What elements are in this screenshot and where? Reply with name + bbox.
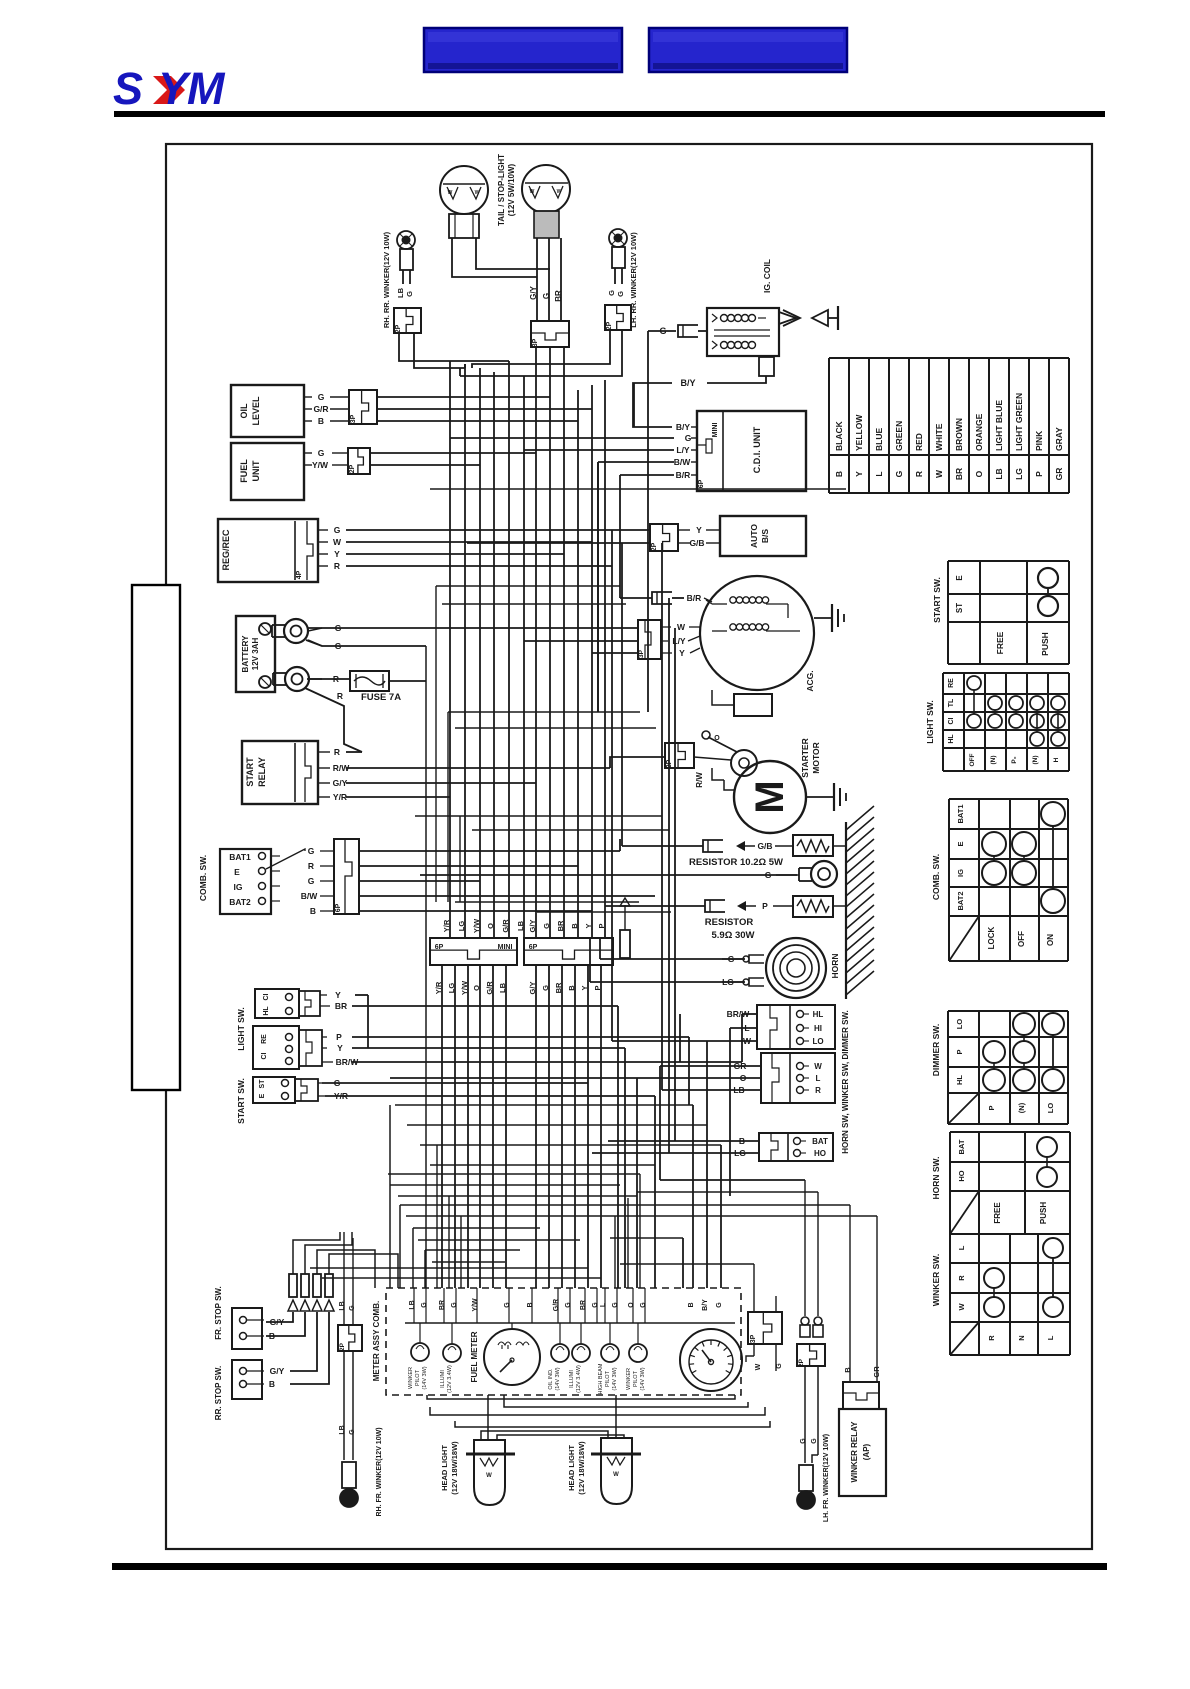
svg-text:TL: TL — [948, 698, 955, 707]
svg-text:WINKER: WINKER — [626, 1368, 632, 1390]
svg-text:P: P — [987, 1105, 996, 1110]
svg-text:(N): (N) — [1032, 755, 1039, 764]
svg-text:G: G — [800, 1438, 807, 1444]
starter motor — [712, 761, 806, 833]
svg-text:YM: YM — [158, 63, 226, 114]
svg-text:(14V 3W): (14V 3W) — [640, 1367, 646, 1390]
svg-text:E: E — [956, 841, 965, 846]
svg-text:R/W: R/W — [695, 772, 704, 788]
svg-text:G: G — [612, 1302, 619, 1308]
svg-text:WINKER: WINKER — [408, 1367, 414, 1389]
tail/stop lamp 1 — [440, 166, 488, 214]
speedometer 3P connector — [746, 1264, 783, 1371]
svg-text:R/W: R/W — [333, 763, 351, 773]
svg-text:R: R — [334, 747, 340, 757]
svg-text:G: G — [640, 1302, 647, 1308]
light switch block 2 — [253, 1026, 333, 1069]
svg-text:MOTOR: MOTOR — [811, 742, 821, 773]
svg-text:L: L — [744, 1023, 749, 1033]
svg-text:HORN SW.: HORN SW. — [931, 1157, 941, 1200]
RR stop switch — [232, 1360, 264, 1399]
svg-text:B: B — [688, 1302, 695, 1307]
svg-text:BAT1: BAT1 — [229, 852, 251, 862]
6P MINI connector A — [430, 938, 517, 965]
svg-text:BR: BR — [556, 920, 565, 931]
svg-text:6P: 6P — [435, 944, 444, 951]
svg-text:G: G — [894, 470, 904, 477]
horn — [722, 938, 826, 998]
svg-text:HI: HI — [814, 1024, 822, 1033]
svg-text:P: P — [593, 985, 602, 990]
svg-text:LG: LG — [457, 921, 466, 932]
svg-text:RED: RED — [914, 433, 924, 451]
svg-text:P: P — [336, 1032, 342, 1042]
wire bundle B verticals — [536, 347, 605, 938]
svg-text:BAT2: BAT2 — [956, 891, 965, 910]
FR stop switch — [232, 1308, 264, 1349]
svg-text:LOCK: LOCK — [987, 926, 996, 949]
svg-text:YELLOW: YELLOW — [854, 414, 864, 451]
svg-text:LB: LB — [339, 1301, 346, 1310]
svg-text:FR. STOP SW.: FR. STOP SW. — [214, 1286, 223, 1340]
RH RR winker wires — [399, 333, 509, 368]
oil level wires — [377, 397, 592, 421]
svg-text:UNIT: UNIT — [251, 460, 261, 481]
svg-text:LB: LB — [498, 982, 507, 993]
auto bystarter 2P connector — [650, 524, 720, 551]
head light 1 label — [440, 1441, 459, 1495]
svg-text:B/Y: B/Y — [680, 378, 695, 388]
LH FR winker bulb — [797, 1465, 815, 1509]
svg-text:HL: HL — [955, 1075, 964, 1085]
svg-text:LIGHT BLUE: LIGHT BLUE — [994, 400, 1004, 451]
svg-text:2P: 2P — [798, 1358, 805, 1367]
svg-text:(14V 3W): (14V 3W) — [612, 1367, 618, 1390]
svg-text:B/Y: B/Y — [702, 1299, 709, 1311]
svg-text:R: R — [308, 861, 314, 871]
svg-text:P: P — [955, 1049, 964, 1054]
wire bundle A verticals — [450, 361, 524, 938]
svg-text:W: W — [814, 1062, 822, 1071]
oil level unit — [231, 385, 312, 437]
svg-text:Y: Y — [696, 525, 702, 535]
svg-text:G/B: G/B — [757, 841, 772, 851]
svg-text:ILLUMI: ILLUMI — [440, 1370, 446, 1388]
svg-text:LB: LB — [733, 1085, 744, 1095]
start switch table — [948, 561, 1069, 664]
svg-text:LG: LG — [734, 1148, 746, 1158]
svg-text:HL: HL — [813, 1010, 824, 1019]
svg-text:R: R — [815, 1086, 821, 1095]
svg-text:BR: BR — [554, 982, 563, 993]
svg-text:M: M — [748, 780, 792, 813]
svg-text:W: W — [755, 1363, 762, 1370]
wire bundle C verticals (CDI/coil area) — [598, 331, 742, 1288]
light switch block 1 — [255, 989, 330, 1018]
svg-text:Y/W: Y/W — [472, 1298, 479, 1312]
svg-text:L: L — [957, 1245, 966, 1250]
svg-text:Y/W: Y/W — [312, 460, 329, 470]
svg-text:L: L — [816, 1074, 821, 1083]
svg-text:L/Y: L/Y — [676, 445, 690, 455]
svg-text:G: G — [659, 326, 666, 336]
svg-text:CI: CI — [948, 717, 955, 724]
svg-text:OFF: OFF — [969, 753, 976, 766]
comb switch table — [949, 799, 1068, 961]
svg-text:Y: Y — [679, 648, 685, 658]
svg-text:G: G — [765, 870, 772, 880]
svg-text:O: O — [486, 923, 495, 929]
svg-text:ST: ST — [259, 1079, 266, 1089]
svg-text:PUSH: PUSH — [1039, 1202, 1048, 1224]
meter assembly dashed box — [386, 1288, 741, 1395]
svg-text:Y: Y — [337, 1043, 343, 1053]
svg-text:RELAY: RELAY — [257, 757, 267, 787]
svg-text:HO: HO — [957, 1170, 966, 1181]
svg-text:(AP): (AP) — [862, 1443, 871, 1460]
starter motor ground — [806, 783, 846, 811]
svg-text:G/Y: G/Y — [528, 982, 537, 995]
ground hatch wall — [846, 806, 874, 999]
comb switch — [220, 849, 305, 914]
svg-text:B: B — [834, 471, 844, 477]
svg-text:P: P — [1034, 471, 1044, 477]
LH FR winker bullets — [800, 1180, 823, 1337]
svg-text:BAT: BAT — [957, 1139, 966, 1154]
svg-text:IG. COIL: IG. COIL — [762, 259, 772, 293]
svg-text:BR/W: BR/W — [336, 1057, 360, 1067]
svg-text:ORANGE: ORANGE — [974, 413, 984, 451]
LH RR winker wires — [460, 330, 622, 376]
ground ring terminal G — [765, 861, 837, 887]
svg-text:B/R: B/R — [687, 593, 702, 603]
svg-text:B: B — [310, 906, 316, 916]
svg-text:FUSE 7A: FUSE 7A — [361, 692, 401, 703]
svg-text:BR: BR — [580, 1300, 587, 1310]
svg-text:BROWN: BROWN — [954, 418, 964, 451]
LH FR winker 2P connector — [797, 1344, 825, 1366]
ignition coil — [707, 308, 779, 356]
svg-text:BR: BR — [335, 1001, 347, 1011]
svg-text:Y/R: Y/R — [442, 919, 451, 932]
svg-text:B: B — [318, 416, 324, 426]
svg-text:(N): (N) — [1017, 1102, 1026, 1113]
svg-text:R: R — [957, 1275, 966, 1281]
capacitor near connector B — [620, 898, 630, 958]
svg-text:W: W — [557, 189, 562, 195]
svg-text:B: B — [570, 923, 579, 929]
meter output wires — [427, 1395, 770, 1440]
RH FR winker bulb — [340, 1462, 358, 1507]
svg-text:GR: GR — [872, 1366, 881, 1378]
svg-text:G: G — [504, 1302, 511, 1308]
svg-text:W: W — [934, 469, 944, 478]
svg-text:R: R — [987, 1335, 996, 1341]
svg-text:W: W — [530, 189, 535, 195]
svg-text:G: G — [318, 392, 325, 402]
svg-text:PILOT: PILOT — [633, 1370, 639, 1387]
resistor 5.9ohm — [705, 896, 846, 941]
speedometer — [680, 1329, 742, 1391]
svg-text:BAT1: BAT1 — [956, 804, 965, 823]
svg-text:HEAD LIGHT: HEAD LIGHT — [440, 1445, 449, 1491]
svg-text:B: B — [739, 1136, 745, 1146]
svg-text:3P: 3P — [350, 414, 357, 423]
svg-text:WINKER RELAY: WINKER RELAY — [850, 1421, 859, 1483]
svg-text:METER ASSY COMB.: METER ASSY COMB. — [372, 1301, 381, 1381]
svg-text:E: E — [234, 867, 240, 877]
bundle B labels above connector — [528, 920, 606, 933]
svg-text:LIGHT SW.: LIGHT SW. — [236, 1007, 246, 1050]
svg-text:BAT: BAT — [812, 1137, 828, 1146]
diagram frame — [166, 144, 1092, 1549]
ACG magneto — [700, 576, 814, 690]
LH FR winker wires — [800, 1366, 818, 1463]
svg-text:Y/R: Y/R — [333, 792, 347, 802]
spark plug — [779, 306, 838, 330]
svg-text:LO: LO — [955, 1019, 964, 1030]
start relay — [242, 741, 330, 804]
svg-text:HORN: HORN — [830, 953, 840, 978]
svg-text:Y: Y — [584, 923, 593, 928]
svg-text:G/Y: G/Y — [270, 1366, 285, 1376]
svg-text:LB: LB — [396, 287, 405, 298]
horn switch table — [950, 1132, 1070, 1234]
CDI unit — [697, 411, 806, 491]
svg-text:G/Y: G/Y — [528, 920, 537, 933]
svg-text:L/Y: L/Y — [672, 636, 686, 646]
front winker 2P connector — [338, 1232, 362, 1351]
svg-text:LEVEL: LEVEL — [251, 396, 261, 426]
svg-text:LH. FR. WINKER(12V 10W): LH. FR. WINKER(12V 10W) — [823, 1434, 830, 1522]
svg-text:(12V 3.4W): (12V 3.4W) — [447, 1365, 453, 1393]
header rule — [114, 111, 1105, 117]
fuel unit 2P connector — [332, 448, 370, 474]
ACG 3P connector — [638, 620, 700, 659]
fuel unit wires — [370, 453, 536, 465]
svg-text:Y/R: Y/R — [334, 1091, 348, 1101]
svg-text:HL: HL — [948, 734, 955, 744]
svg-text:(14V 3W): (14V 3W) — [422, 1366, 428, 1389]
svg-text:PILOT: PILOT — [605, 1370, 611, 1387]
svg-text:Y/R: Y/R — [434, 981, 443, 994]
speedometer wire labels — [688, 1299, 723, 1311]
light switch table — [943, 673, 1069, 771]
svg-text:R: R — [337, 691, 343, 701]
svg-text:Y/W: Y/W — [472, 918, 481, 933]
svg-text:OIL: OIL — [239, 403, 249, 419]
ignition coil G label and bullet — [648, 325, 707, 337]
svg-text:G: G — [335, 641, 342, 651]
svg-text:FUEL METER: FUEL METER — [470, 1331, 479, 1382]
bundle B labels below connector — [528, 982, 602, 995]
svg-text:O: O — [714, 735, 720, 742]
svg-text:PUSH: PUSH — [1040, 632, 1050, 656]
svg-text:L: L — [874, 471, 884, 476]
svg-text:G: G — [565, 1302, 572, 1308]
svg-text:B/W: B/W — [301, 891, 319, 901]
svg-text:GRAY: GRAY — [1054, 427, 1064, 451]
meter wire labels — [409, 1288, 647, 1323]
svg-text:G: G — [542, 923, 551, 929]
svg-text:P: P — [762, 901, 768, 911]
fuse 7A — [350, 671, 401, 703]
svg-text:W: W — [475, 190, 480, 196]
svg-text:G: G — [421, 1302, 428, 1308]
svg-text:FUEL: FUEL — [239, 459, 249, 483]
svg-text:(12V 18W/18W): (12V 18W/18W) — [577, 1441, 586, 1495]
svg-text:LIGHT GREEN: LIGHT GREEN — [1014, 393, 1024, 451]
svg-text:G: G — [716, 1302, 723, 1308]
dimmer switch table — [948, 1011, 1068, 1124]
comb switch 6P connector — [320, 839, 359, 914]
svg-text:HO: HO — [814, 1149, 826, 1158]
svg-text:RR. STOP SW.: RR. STOP SW. — [214, 1366, 223, 1420]
svg-text:MINI: MINI — [498, 944, 513, 951]
svg-text:TAIL / STOP-LIGHT: TAIL / STOP-LIGHT — [497, 154, 506, 226]
svg-text:ST: ST — [955, 603, 964, 613]
svg-text:LB: LB — [516, 920, 525, 931]
horn switch connector — [759, 1133, 833, 1161]
svg-text:O: O — [974, 470, 984, 477]
svg-text:IG: IG — [234, 882, 243, 892]
svg-text:E: E — [259, 1093, 266, 1098]
svg-text:W: W — [613, 1472, 619, 1478]
svg-text:BR: BR — [439, 1300, 446, 1310]
svg-text:RESISTOR: RESISTOR — [705, 917, 754, 928]
fuel meter — [484, 1323, 540, 1385]
winker switch connector — [761, 1053, 835, 1103]
tail/stop lamp 2 — [522, 165, 570, 238]
svg-text:CI: CI — [261, 1052, 268, 1059]
svg-text:PILOT: PILOT — [415, 1369, 421, 1386]
footer rule — [112, 1563, 1107, 1570]
svg-text:BAT2: BAT2 — [229, 897, 251, 907]
svg-text:START SW.: START SW. — [932, 577, 942, 623]
svg-text:Y/W: Y/W — [460, 980, 469, 995]
bundle A labels below connector — [434, 980, 507, 995]
svg-text:P₀: P₀ — [1011, 756, 1018, 763]
svg-text:G/R: G/R — [553, 1299, 560, 1311]
battery — [236, 616, 275, 692]
svg-text:GREEN: GREEN — [894, 421, 904, 451]
svg-text:AUTO: AUTO — [749, 524, 759, 548]
svg-text:FREE: FREE — [995, 631, 1005, 654]
svg-text:RESISTOR 10.2Ω 5W: RESISTOR 10.2Ω 5W — [689, 857, 783, 868]
battery ring terminals — [272, 619, 322, 691]
svg-text:2P: 2P — [666, 759, 673, 768]
svg-text:FREE: FREE — [993, 1202, 1002, 1224]
svg-text:RH. RR. WINKER(12V 10W): RH. RR. WINKER(12V 10W) — [382, 231, 391, 328]
svg-text:2P: 2P — [651, 542, 658, 551]
svg-text:2P: 2P — [339, 1342, 346, 1351]
meter bus line — [405, 1322, 735, 1324]
svg-text:STARTER: STARTER — [800, 738, 810, 778]
svg-text:G: G — [592, 1302, 599, 1308]
svg-text:W: W — [333, 537, 342, 547]
svg-text:6P: 6P — [529, 944, 538, 951]
svg-text:HORN SW, WINKER SW, DIMMER SW.: HORN SW, WINKER SW, DIMMER SW. — [841, 1010, 850, 1154]
svg-text:LB: LB — [994, 468, 1004, 479]
svg-text:G: G — [451, 1302, 458, 1308]
svg-text:LG: LG — [1014, 468, 1024, 480]
svg-text:Y: Y — [334, 549, 340, 559]
svg-text:RE: RE — [948, 678, 955, 688]
start switch block — [253, 1077, 325, 1103]
svg-text:R: R — [914, 471, 924, 477]
RH FR winker wires — [339, 1351, 356, 1460]
svg-text:BR/W: BR/W — [727, 1009, 751, 1019]
svg-text:G: G — [334, 1078, 341, 1088]
svg-text:BLUE: BLUE — [874, 428, 884, 451]
SYM logo — [113, 63, 226, 114]
svg-text:HIGH BEAM: HIGH BEAM — [598, 1363, 604, 1394]
svg-text:5.9Ω 30W: 5.9Ω 30W — [712, 930, 755, 941]
wire verticals to speedometer connector — [693, 1041, 721, 1288]
svg-text:3P: 3P — [638, 649, 645, 658]
svg-text:3P: 3P — [750, 1334, 757, 1343]
svg-text:G: G — [728, 954, 735, 964]
starter motor label — [800, 738, 821, 778]
svg-text:W: W — [957, 1303, 966, 1311]
svg-text:WHITE: WHITE — [934, 423, 944, 451]
svg-text:LG: LG — [722, 977, 734, 987]
svg-text:12V 3AH: 12V 3AH — [251, 638, 260, 671]
svg-text:START: START — [245, 757, 255, 787]
svg-text:G: G — [335, 623, 342, 633]
svg-text:2P: 2P — [395, 324, 402, 333]
svg-text:G/R: G/R — [485, 981, 494, 995]
meter pilot lamps — [408, 1323, 647, 1394]
svg-text:L: L — [600, 1302, 607, 1307]
wire horizontals left components to bus — [305, 530, 742, 1288]
svg-text:B/Y: B/Y — [676, 422, 691, 432]
stop switch wires — [266, 1312, 329, 1384]
svg-text:GR: GR — [734, 1061, 747, 1071]
svg-text:BLACK: BLACK — [834, 420, 844, 451]
tail light 3P connector — [531, 321, 569, 347]
tail lamp 2 wires — [537, 238, 561, 321]
svg-text:G/B: G/B — [689, 538, 704, 548]
svg-text:DIMMER SW.: DIMMER SW. — [931, 1024, 941, 1076]
CDI wire labels — [674, 422, 697, 480]
oil level 3P connector — [330, 390, 377, 424]
svg-text:RE: RE — [261, 1034, 268, 1044]
svg-text:P: P — [597, 923, 606, 928]
svg-text:G/Y: G/Y — [333, 778, 348, 788]
svg-text:G: G — [308, 846, 315, 856]
svg-text:W: W — [677, 622, 686, 632]
RH RR winker bulb — [397, 231, 415, 284]
RH RR winker 2P connector — [394, 308, 421, 333]
svg-text:ILLUMI: ILLUMI — [569, 1370, 575, 1388]
svg-text:G: G — [776, 1363, 783, 1369]
svg-text:G: G — [334, 525, 341, 535]
svg-text:WINKER SW.: WINKER SW. — [931, 1254, 941, 1306]
tail lamp 1 socket — [449, 214, 479, 238]
svg-text:BR: BR — [554, 290, 563, 302]
svg-text:RH. FR. WINKER(12V 10W): RH. FR. WINKER(12V 10W) — [376, 1427, 383, 1516]
svg-text:ACG.: ACG. — [805, 670, 815, 691]
head light 2 — [591, 1438, 641, 1504]
wire bundle below connectors — [442, 965, 601, 1288]
left margin label box — [132, 585, 180, 1090]
svg-text:G: G — [541, 985, 550, 991]
svg-text:Y: Y — [854, 471, 864, 477]
winker relay — [839, 1382, 886, 1496]
svg-text:G: G — [811, 1438, 818, 1444]
svg-text:E: E — [955, 575, 964, 581]
